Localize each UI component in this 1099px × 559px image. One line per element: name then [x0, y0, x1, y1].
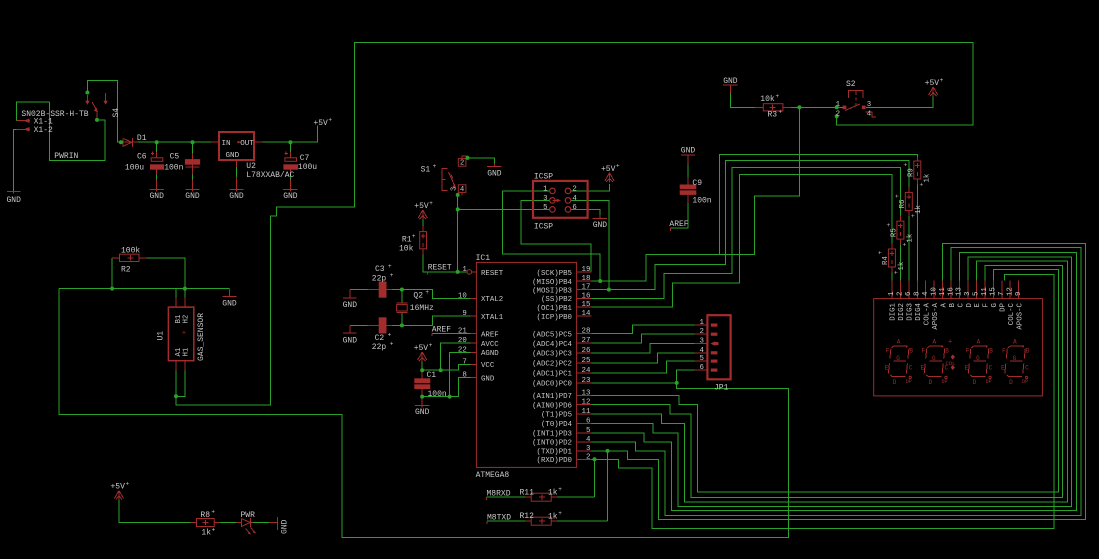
svg-text:DP: DP	[1022, 379, 1028, 385]
svg-text:B: B	[945, 348, 949, 355]
svg-text:G: G	[1013, 355, 1017, 362]
svg-text:+: +	[910, 214, 917, 218]
svg-text:R11: R11	[520, 488, 535, 497]
svg-text:R12: R12	[520, 512, 535, 521]
svg-text:+: +	[885, 223, 892, 227]
svg-text:DP: DP	[942, 379, 948, 385]
svg-text:+: +	[558, 486, 562, 493]
svg-text:AGND: AGND	[481, 350, 499, 358]
svg-text:+: +	[616, 163, 620, 170]
svg-text:28: 28	[582, 328, 591, 336]
svg-text:19: 19	[582, 266, 591, 274]
svg-text:1k: 1k	[548, 488, 558, 497]
svg-text:2: 2	[572, 185, 576, 193]
svg-text:GND: GND	[281, 519, 290, 534]
svg-text:ICSP: ICSP	[534, 223, 553, 232]
svg-text:COL-A: COL-A	[924, 302, 932, 325]
svg-text:+5V: +5V	[414, 202, 429, 211]
svg-text:6: 6	[572, 204, 576, 212]
svg-text:R2: R2	[121, 265, 131, 274]
svg-text:2: 2	[897, 292, 905, 296]
svg-text:APOS-A: APOS-A	[932, 302, 940, 329]
svg-text:IC1: IC1	[476, 254, 491, 263]
svg-text:(MOSI)PB3: (MOSI)PB3	[532, 287, 572, 295]
svg-text:+: +	[429, 200, 433, 207]
svg-text:AVCC: AVCC	[481, 341, 499, 349]
svg-text:+5V: +5V	[414, 344, 429, 353]
svg-text:GND: GND	[149, 192, 164, 201]
svg-text:E: E	[965, 365, 969, 372]
svg-text:2: 2	[460, 160, 464, 168]
svg-text:(ADC1)PC1: (ADC1)PC1	[532, 371, 572, 379]
svg-text:(RXD)PD0: (RXD)PD0	[537, 457, 572, 465]
svg-text:+: +	[390, 341, 394, 348]
svg-text:A: A	[977, 339, 981, 346]
svg-text:27: 27	[582, 337, 591, 345]
svg-text:100n: 100n	[164, 164, 183, 173]
svg-text:G: G	[976, 355, 980, 362]
svg-text:+: +	[212, 527, 216, 534]
svg-text:16: 16	[947, 287, 955, 296]
svg-text:C2: C2	[375, 334, 385, 343]
svg-text:3: 3	[699, 338, 703, 346]
svg-text:4: 4	[572, 195, 577, 203]
svg-text:9: 9	[1015, 292, 1023, 296]
svg-text:4: 4	[460, 186, 464, 194]
svg-text:B: B	[949, 302, 957, 307]
svg-text:(T1)PD5: (T1)PD5	[541, 412, 572, 420]
svg-text:DP: DP	[906, 379, 912, 385]
svg-text:100u: 100u	[125, 164, 144, 173]
svg-text:D: D	[1009, 379, 1013, 386]
svg-text:S2: S2	[846, 80, 856, 89]
svg-text:RESET: RESET	[428, 264, 452, 273]
svg-text:F: F	[922, 348, 926, 355]
svg-text:C: C	[1025, 365, 1029, 372]
svg-text:+: +	[558, 510, 562, 517]
svg-text:9: 9	[462, 310, 466, 318]
svg-text:C: C	[909, 365, 913, 372]
svg-text:24: 24	[582, 367, 591, 375]
svg-text:3: 3	[964, 292, 972, 296]
svg-text:12: 12	[1006, 287, 1014, 296]
svg-text:XTAL1: XTAL1	[481, 314, 504, 322]
svg-text:U1: U1	[157, 331, 166, 341]
svg-text:COL-C: COL-C	[1008, 302, 1016, 325]
svg-text:3: 3	[543, 195, 547, 203]
svg-text:4: 4	[699, 347, 704, 355]
svg-text:26: 26	[582, 347, 591, 355]
svg-text:+: +	[429, 342, 433, 349]
svg-text:1k: 1k	[906, 233, 914, 242]
svg-text:F: F	[886, 348, 890, 355]
svg-text:B: B	[909, 348, 913, 355]
svg-text:2: 2	[699, 328, 703, 336]
svg-text:R5: R5	[890, 228, 898, 237]
svg-text:3: 3	[867, 101, 871, 109]
svg-text:(ADC3)PC3: (ADC3)PC3	[532, 351, 572, 359]
svg-text:GND: GND	[343, 337, 358, 346]
svg-text:C: C	[957, 302, 965, 307]
svg-text:D: D	[973, 379, 977, 386]
svg-text:1: 1	[543, 185, 548, 193]
svg-text:ATMEGA8: ATMEGA8	[476, 471, 510, 480]
svg-text:H1: H1	[182, 347, 190, 356]
svg-text:5: 5	[699, 355, 703, 363]
svg-text:R4: R4	[882, 256, 890, 265]
svg-text:6: 6	[905, 292, 913, 296]
svg-text:G: G	[932, 355, 936, 362]
svg-text:GND: GND	[593, 221, 608, 230]
svg-text:S4: S4	[112, 108, 121, 118]
svg-text:+: +	[412, 233, 416, 240]
svg-text:25: 25	[582, 357, 591, 365]
svg-text:GND: GND	[185, 192, 200, 201]
svg-text:2: 2	[836, 110, 840, 118]
svg-text:22p: 22p	[372, 343, 387, 352]
svg-text:AREF: AREF	[669, 220, 688, 229]
svg-text:D: D	[929, 379, 933, 386]
svg-text:5: 5	[586, 427, 590, 435]
svg-text:+: +	[328, 117, 332, 124]
svg-text:16: 16	[582, 292, 591, 300]
svg-text:C6: C6	[137, 153, 147, 162]
svg-text:A: A	[897, 339, 901, 346]
svg-text:D1: D1	[137, 134, 147, 143]
svg-text:GND: GND	[6, 196, 21, 205]
svg-text:4: 4	[867, 110, 872, 118]
svg-text:GND: GND	[226, 152, 240, 160]
svg-text:C3: C3	[375, 265, 385, 274]
svg-text:C: C	[989, 365, 993, 372]
svg-text:D: D	[893, 379, 897, 386]
svg-text:+: +	[894, 194, 901, 198]
svg-text:11: 11	[981, 287, 989, 296]
svg-text:GND: GND	[723, 77, 738, 86]
svg-text:(MISO)PB4: (MISO)PB4	[532, 279, 572, 287]
svg-text:D: D	[966, 302, 974, 307]
svg-text:13: 13	[582, 389, 591, 397]
svg-text:GND: GND	[229, 192, 244, 201]
svg-text:+5V: +5V	[925, 79, 940, 88]
svg-text:E: E	[885, 365, 889, 372]
svg-text:3: 3	[451, 187, 459, 191]
svg-text:B: B	[989, 348, 993, 355]
svg-text:6: 6	[586, 417, 590, 425]
svg-text:+: +	[126, 480, 130, 487]
svg-text:(OC1)PB1: (OC1)PB1	[537, 305, 573, 313]
svg-text:14: 14	[582, 310, 591, 318]
svg-text:5: 5	[543, 204, 547, 212]
svg-text:16MHz: 16MHz	[410, 304, 434, 313]
svg-text:R9: R9	[907, 168, 915, 177]
svg-text:G: G	[991, 303, 999, 307]
svg-text:4: 4	[586, 436, 591, 444]
svg-text:17: 17	[582, 284, 591, 292]
svg-text:(ADC5)PC5: (ADC5)PC5	[532, 331, 572, 339]
svg-text:A: A	[940, 302, 948, 307]
svg-text:COL: COL	[946, 360, 956, 367]
svg-text:B: B	[1026, 348, 1030, 355]
svg-text:(AIN1)PD7: (AIN1)PD7	[532, 393, 572, 401]
svg-text:1k: 1k	[923, 173, 931, 182]
svg-text:1: 1	[699, 319, 704, 327]
svg-text:10: 10	[458, 292, 467, 300]
svg-text:5: 5	[973, 292, 981, 296]
svg-text:XTAL2: XTAL2	[481, 296, 503, 304]
svg-text:GND: GND	[481, 375, 495, 383]
svg-text:+5V: +5V	[601, 165, 616, 174]
svg-text:2: 2	[586, 453, 590, 461]
svg-text:100u: 100u	[298, 163, 317, 172]
svg-text:+: +	[390, 272, 394, 279]
svg-text:M8TXD: M8TXD	[487, 513, 511, 522]
svg-text:PWRIN: PWRIN	[54, 152, 78, 161]
svg-text:(INT1)PD3: (INT1)PD3	[532, 431, 572, 439]
svg-text:E: E	[974, 302, 982, 307]
svg-text:(T0)PD4: (T0)PD4	[541, 421, 573, 429]
svg-text:VCC: VCC	[481, 362, 495, 370]
svg-text:15: 15	[990, 287, 998, 296]
svg-text:JP1: JP1	[714, 384, 729, 393]
svg-text:G: G	[896, 355, 900, 362]
svg-text:L78XXAB/AC: L78XXAB/AC	[246, 171, 294, 180]
svg-text:1k: 1k	[201, 529, 211, 538]
svg-text:8: 8	[462, 372, 466, 380]
svg-text:C9: C9	[692, 179, 702, 188]
svg-text:+: +	[919, 182, 926, 186]
svg-text:GND: GND	[222, 300, 237, 309]
svg-text:+: +	[902, 242, 909, 246]
svg-text:R6: R6	[899, 200, 907, 209]
svg-text:23: 23	[582, 377, 591, 385]
svg-text:(ADC2)PC2: (ADC2)PC2	[532, 361, 572, 369]
svg-text:10: 10	[930, 287, 938, 296]
svg-text:RESET: RESET	[481, 270, 504, 278]
svg-text:C1: C1	[427, 371, 437, 380]
svg-text:PWR: PWR	[241, 511, 256, 520]
svg-text:DIG2: DIG2	[898, 303, 906, 321]
svg-text:1k: 1k	[548, 512, 558, 521]
svg-text:GND: GND	[343, 301, 358, 310]
svg-text:DP: DP	[1000, 302, 1008, 311]
svg-text:22p: 22p	[372, 275, 387, 284]
svg-text:+: +	[940, 77, 944, 84]
svg-text:A: A	[1013, 339, 1017, 346]
svg-text:+: +	[211, 509, 215, 516]
svg-text:A: A	[933, 339, 937, 346]
svg-text:GAS_SENSOR: GAS_SENSOR	[197, 313, 206, 361]
svg-text:(ADC0)PC0: (ADC0)PC0	[532, 381, 572, 389]
svg-text:100n: 100n	[428, 390, 447, 399]
svg-text:F: F	[966, 348, 970, 355]
svg-text:4: 4	[922, 291, 930, 296]
svg-text:R3: R3	[768, 111, 778, 120]
svg-text:AREF: AREF	[432, 325, 451, 334]
svg-text:1: 1	[888, 291, 896, 296]
svg-text:DP: DP	[986, 379, 992, 385]
svg-text:GND: GND	[487, 169, 502, 178]
svg-text:IN: IN	[222, 140, 231, 148]
svg-text:100k: 100k	[121, 246, 140, 255]
svg-text:+5V: +5V	[111, 483, 126, 492]
svg-text:F: F	[1002, 348, 1006, 355]
svg-text:+: +	[388, 331, 392, 338]
svg-text:1k: 1k	[915, 204, 923, 213]
svg-text:+5V: +5V	[313, 119, 328, 128]
svg-text:21: 21	[458, 328, 467, 336]
svg-text:GND: GND	[283, 192, 298, 201]
svg-text:(INT0)PD2: (INT0)PD2	[532, 440, 572, 448]
svg-text:F: F	[983, 303, 991, 307]
svg-text:(ICP)PB0: (ICP)PB0	[537, 314, 572, 322]
svg-text:DIG3: DIG3	[907, 303, 915, 321]
svg-text:AREF: AREF	[481, 331, 499, 339]
svg-text:(SCK)PB5: (SCK)PB5	[537, 270, 572, 278]
svg-text:+: +	[877, 251, 884, 255]
svg-text:18: 18	[582, 275, 591, 283]
svg-text:15: 15	[582, 301, 591, 309]
svg-text:SN02B-SSR-H-TB: SN02B-SSR-H-TB	[21, 110, 88, 119]
svg-text:E: E	[921, 365, 925, 372]
svg-text:R8: R8	[200, 511, 210, 520]
svg-text:12: 12	[582, 399, 591, 407]
svg-text:H2: H2	[182, 315, 190, 324]
svg-text:3: 3	[586, 445, 590, 453]
svg-text:+: +	[182, 330, 186, 338]
svg-text:+: +	[776, 93, 780, 100]
svg-text:S1: S1	[421, 166, 431, 175]
svg-text:1k: 1k	[898, 261, 906, 270]
svg-text:7: 7	[462, 358, 466, 366]
svg-text:GND: GND	[415, 408, 430, 417]
svg-text:8: 8	[914, 292, 922, 296]
svg-text:22: 22	[458, 346, 467, 354]
svg-text:7: 7	[998, 292, 1006, 296]
svg-text:13: 13	[956, 287, 964, 296]
svg-text:Q2: Q2	[413, 292, 423, 301]
svg-text:M8RXD: M8RXD	[487, 489, 511, 498]
svg-text:10k: 10k	[760, 95, 775, 104]
svg-text:U2: U2	[246, 162, 256, 171]
svg-text:GND: GND	[681, 147, 696, 156]
svg-text:+: +	[902, 163, 909, 167]
svg-text:+: +	[948, 339, 952, 347]
svg-text:DIG1: DIG1	[890, 302, 898, 320]
svg-text:+: +	[433, 163, 437, 170]
svg-text:+: +	[388, 263, 392, 270]
svg-text:11: 11	[582, 408, 591, 416]
svg-text:1: 1	[836, 101, 841, 109]
svg-text:(TXD)PD1: (TXD)PD1	[537, 449, 573, 457]
svg-text:OUT: OUT	[240, 140, 254, 148]
svg-text:DIG4: DIG4	[915, 302, 923, 320]
svg-text:(AIN0)PD6: (AIN0)PD6	[532, 402, 572, 410]
svg-text:20: 20	[458, 337, 467, 345]
svg-text:+: +	[893, 270, 900, 274]
svg-text:11: 11	[939, 287, 947, 296]
svg-text:X1-2: X1-2	[34, 126, 53, 135]
svg-text:100n: 100n	[692, 196, 711, 205]
svg-text:+: +	[779, 109, 783, 116]
svg-text:R1: R1	[402, 236, 412, 245]
svg-text:ICSP: ICSP	[534, 172, 553, 181]
svg-text:(ADC4)PC4: (ADC4)PC4	[532, 341, 572, 349]
svg-text:C7: C7	[300, 154, 310, 163]
svg-text:(SS)PB2: (SS)PB2	[541, 296, 572, 304]
svg-text:1: 1	[462, 266, 467, 274]
svg-text:E: E	[1001, 365, 1005, 372]
svg-text:10k: 10k	[399, 245, 414, 254]
svg-text:APOS-C: APOS-C	[1017, 302, 1025, 329]
svg-text:C5: C5	[170, 153, 180, 162]
svg-text:+: +	[425, 289, 429, 296]
svg-text:6: 6	[699, 364, 703, 372]
